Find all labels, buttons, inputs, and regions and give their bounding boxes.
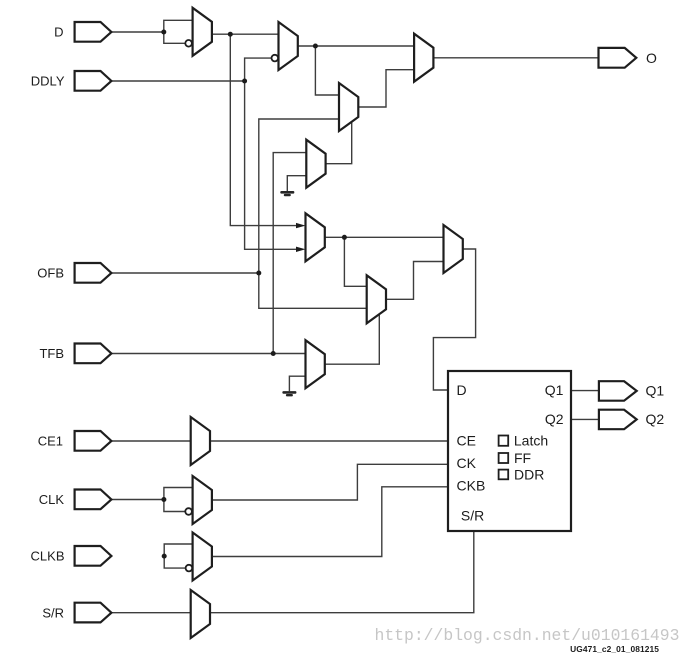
junction on D wire (161, 30, 166, 35)
wire M6 output branch down to M8 top input (344, 237, 366, 286)
input port DDLY (75, 71, 112, 91)
svg-text:S/R: S/R (461, 508, 484, 524)
checkbox DDR (499, 470, 509, 480)
wire M3 output to M4 bottom input (358, 70, 414, 107)
mux M1 (D / not D) (193, 8, 212, 56)
arrowhead M6 top input (296, 223, 306, 228)
junction CLKB (162, 554, 167, 559)
junction M1 output (228, 32, 233, 37)
wire M1 output branch down to M6 top input (230, 34, 296, 225)
input port CLK (75, 490, 112, 510)
wire TFB input to M9 top input (111, 353, 305, 355)
mux M9 (ground select) (306, 340, 325, 388)
wire TFB junction up to M5 top input (273, 153, 306, 354)
svg-text:Q2: Q2 (545, 411, 564, 427)
svg-text:Q2: Q2 (646, 411, 665, 427)
wire M12 output to block CKB input (212, 487, 448, 557)
input port TFB (75, 344, 112, 364)
input port D (75, 22, 112, 42)
svg-text:CLKB: CLKB (31, 549, 65, 564)
junction M2 output (313, 44, 318, 49)
junction TFB (271, 351, 276, 356)
svg-text:http://blog.csdn.net/u01016149: http://blog.csdn.net/u010161493 (375, 626, 680, 645)
wire M11 output to block CK input (212, 464, 448, 500)
input port CLKB (75, 546, 112, 566)
inversion bubble M2 (272, 55, 279, 62)
wire CLK input to junction (111, 499, 163, 501)
mux M10 CE1 (191, 417, 210, 465)
wire M9 ground stub (289, 376, 305, 391)
wire OFB junction down to M8 bottom input (259, 273, 367, 308)
svg-text:FF: FF (514, 450, 531, 466)
wire DDLY junction up to M2 bubble input (245, 58, 272, 81)
inversion bubble M12 (186, 565, 193, 572)
junction M6 output (342, 235, 347, 240)
wire M13 output to block S/R input (210, 531, 474, 613)
checkbox Latch (499, 436, 509, 446)
wire M2 output to M4 top input (298, 45, 414, 47)
svg-text:D: D (54, 25, 63, 40)
junction CLK (161, 497, 166, 502)
wire OFB input to junction (111, 272, 258, 274)
wire D input to junction (111, 31, 163, 33)
flip-flop latch block U1 (448, 371, 571, 531)
wire DDLY junction down to M6 bottom input (245, 81, 297, 249)
mux M3 (339, 83, 358, 131)
svg-text:D: D (457, 382, 467, 398)
ground symbol at M9 (282, 391, 296, 394)
wire M10 output to block CE input (210, 440, 448, 442)
mux M4 output mux (414, 34, 433, 82)
wire CLK split bracket to M11 inputs (164, 488, 193, 512)
svg-text:TFB: TFB (39, 346, 64, 361)
wire M6 output to M7 top input (325, 236, 444, 238)
wire DDLY input to junction (111, 80, 244, 82)
output port Q1 (599, 381, 637, 401)
junction OFB (256, 271, 261, 276)
wire CE1 input to M10 (111, 440, 190, 442)
wire block Q2 to port (571, 418, 599, 420)
mux M5 (ground select) (306, 140, 325, 188)
mux M8 (367, 275, 386, 323)
svg-text:CKB: CKB (457, 478, 486, 494)
wire M5 ground stub (287, 176, 306, 191)
mux M13 S/R (191, 590, 210, 638)
svg-text:Q1: Q1 (646, 383, 665, 399)
svg-text:S/R: S/R (42, 605, 64, 620)
mux M7 (444, 225, 463, 273)
checkbox FF (499, 453, 509, 463)
wire M2 output branch down to M3 top input (315, 46, 339, 95)
wire D split bracket to mux M1 inputs (164, 20, 193, 43)
wire CLKB split bracket to M12 inputs (164, 544, 192, 568)
junction DDLY (242, 79, 247, 84)
svg-text:DDLY: DDLY (31, 74, 65, 89)
output port Q2 (599, 410, 637, 430)
svg-text:Latch: Latch (514, 432, 548, 448)
inversion bubble M1 (185, 40, 192, 47)
wire S/R input to M13 (111, 612, 190, 614)
wire M9 output up to M8 select (325, 314, 380, 364)
svg-text:OFB: OFB (37, 266, 64, 281)
input port OFB (75, 263, 112, 283)
arrowhead M6 bottom input (296, 247, 306, 252)
mux M11 CLK (193, 476, 212, 524)
mux M2 (279, 22, 298, 70)
mux M12 CLKB (193, 533, 212, 581)
wire M5 output up to M3 select (326, 122, 352, 164)
input port CE1 (75, 431, 112, 451)
wire M1 output to M2 top input (212, 33, 279, 35)
svg-text:CK: CK (457, 455, 477, 471)
svg-text:CLK: CLK (39, 492, 65, 507)
wire OFB junction up to M3 bottom input (259, 119, 339, 273)
wire M8 output to M7 bottom input (386, 262, 444, 300)
svg-text:Q1: Q1 (545, 382, 564, 398)
inversion bubble M11 (185, 508, 192, 515)
input port S/R (75, 603, 112, 623)
svg-text:CE: CE (457, 433, 476, 449)
wire block Q1 to port (571, 390, 599, 392)
svg-text:O: O (646, 50, 657, 66)
wire M4 output to O port (433, 57, 598, 59)
ground symbol at M5 (280, 191, 294, 194)
mux M6 (arrow inputs) (306, 213, 325, 261)
wire M7 output to block D input (433, 249, 475, 390)
svg-text:UG471_c2_01_081215: UG471_c2_01_081215 (570, 644, 659, 654)
output port O (599, 48, 637, 68)
svg-text:CE1: CE1 (38, 434, 63, 449)
svg-text:DDR: DDR (514, 466, 544, 482)
